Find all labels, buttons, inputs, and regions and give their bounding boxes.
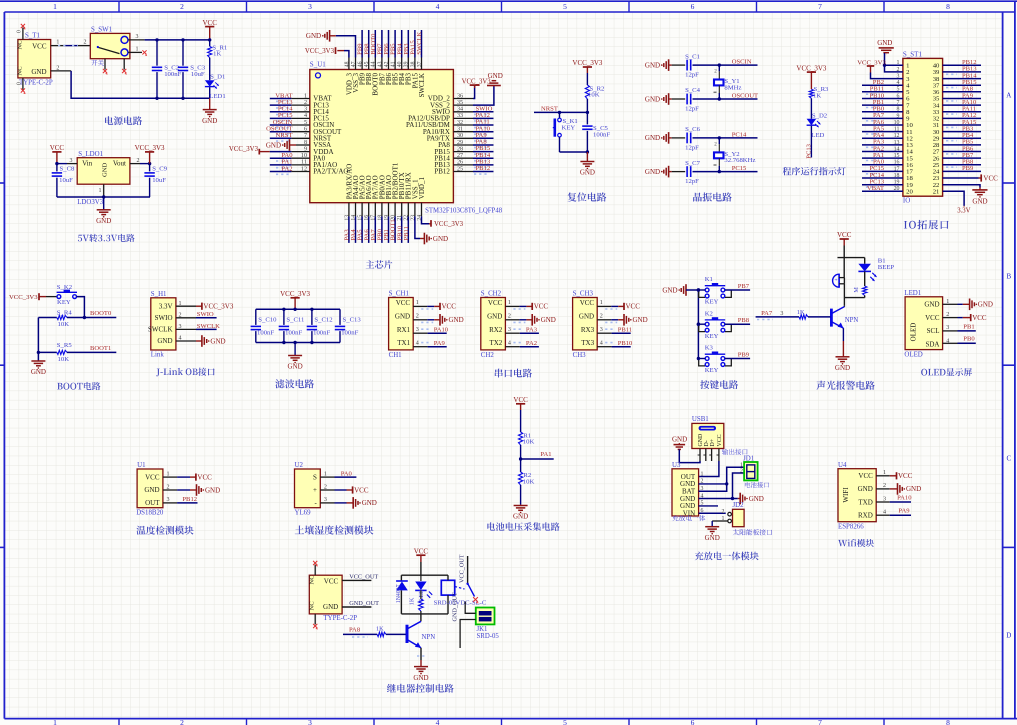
relay coil xyxy=(441,575,454,614)
svg-text:PA10: PA10 xyxy=(434,327,449,334)
svg-text:SWCLK: SWCLK xyxy=(418,73,426,98)
svg-text:RX3: RX3 xyxy=(581,326,595,334)
ground GND keys xyxy=(662,284,700,296)
svg-text:GND: GND xyxy=(157,337,172,345)
svg-text:4: 4 xyxy=(436,2,440,11)
wire U1 VSS_2 to GND xyxy=(473,86,494,106)
svg-text:VCC_3V3: VCC_3V3 xyxy=(305,48,335,55)
capacitor C5 xyxy=(582,112,610,153)
svg-text:SWCLK: SWCLK xyxy=(148,326,173,334)
svg-text:GND: GND xyxy=(749,495,764,503)
svg-text:TX1: TX1 xyxy=(397,339,410,347)
connector USB1 body xyxy=(692,416,724,448)
svg-text:JD2: JD2 xyxy=(733,502,745,509)
svg-text:VCC: VCC xyxy=(626,303,641,311)
svg-text:S_C12: S_C12 xyxy=(314,317,332,324)
connector T1 (TYPE-C-2P) xyxy=(17,33,53,87)
pushbutton K2 xyxy=(697,310,750,340)
svg-text:12pF: 12pF xyxy=(685,72,699,79)
svg-text:VCC: VCC xyxy=(354,486,369,494)
svg-text:VCC: VCC xyxy=(837,231,852,239)
svg-text:3.3V: 3.3V xyxy=(159,302,173,310)
svg-text:PB8: PB8 xyxy=(738,317,750,324)
resistor R5 BOOT1 xyxy=(38,342,116,363)
svg-text:VCC: VCC xyxy=(50,144,65,152)
svg-text:OUT: OUT xyxy=(145,499,160,507)
caption main chip xyxy=(366,260,393,269)
svg-text:U1: U1 xyxy=(137,462,146,469)
svg-text:2: 2 xyxy=(600,314,603,320)
svg-text:10K: 10K xyxy=(588,92,600,99)
svg-text:1K: 1K xyxy=(409,597,416,605)
svg-text:VBAT: VBAT xyxy=(867,185,884,192)
svg-text:KEY: KEY xyxy=(705,367,719,374)
header CH1 body xyxy=(389,290,414,359)
svg-text:1K: 1K xyxy=(376,625,384,632)
svg-text:2: 2 xyxy=(416,314,419,320)
caption serial circuit xyxy=(495,369,532,378)
svg-text:3: 3 xyxy=(308,718,312,725)
svg-text:VCC: VCC xyxy=(32,43,47,51)
ground GND top right of U1 xyxy=(487,72,503,86)
svg-text:GND: GND xyxy=(513,513,528,521)
wire boot pulldown rail xyxy=(37,318,40,362)
svg-text:VCC_3V3: VCC_3V3 xyxy=(135,144,165,152)
header CH2 body xyxy=(481,290,506,359)
svg-text:VCC: VCC xyxy=(925,314,940,322)
OLED pin1 GND xyxy=(943,299,993,311)
svg-text:12pF: 12pF xyxy=(685,144,699,151)
ground GND relay xyxy=(413,667,428,682)
relay part number xyxy=(434,599,487,606)
svg-text:VCC: VCC xyxy=(145,473,160,481)
svg-text:STM32F103C8T6_LQFP48: STM32F103C8T6_LQFP48 xyxy=(425,207,503,214)
svg-text:PA1: PA1 xyxy=(540,451,551,458)
svg-text:VCC: VCC xyxy=(324,577,339,585)
OLED pin4 SDA xyxy=(943,336,976,345)
svg-text:GND: GND xyxy=(978,301,993,309)
svg-text:GND: GND xyxy=(210,337,225,345)
svg-text:VCC: VCC xyxy=(442,303,457,311)
U2 pin2 + xyxy=(320,484,369,494)
svg-text:U4: U4 xyxy=(838,462,847,469)
svg-text:+: + xyxy=(313,486,317,494)
svg-text:3: 3 xyxy=(70,158,73,164)
power port VCC xyxy=(202,19,217,42)
svg-text:S_C4: S_C4 xyxy=(685,87,701,94)
svg-text:1K: 1K xyxy=(797,309,805,316)
svg-text:PC14: PC14 xyxy=(732,131,747,138)
svg-text:2: 2 xyxy=(740,468,743,474)
LED relay xyxy=(415,582,432,602)
svg-text:CH1: CH1 xyxy=(389,352,403,359)
power VCC_3V3 jlink xyxy=(196,303,234,311)
capacitor C7 row PC15 xyxy=(645,160,758,185)
svg-text:RX1: RX1 xyxy=(397,326,411,334)
net SWIO jlink xyxy=(196,311,217,318)
svg-text:S_CH1: S_CH1 xyxy=(389,290,410,297)
H1 pin wires xyxy=(176,301,196,342)
svg-text:3.3V: 3.3V xyxy=(957,207,970,214)
header CH3 body xyxy=(573,290,598,359)
svg-text:D+: D+ xyxy=(710,438,716,446)
svg-text:41: 41 xyxy=(391,61,397,67)
svg-text:38: 38 xyxy=(410,61,416,67)
svg-text:PA9: PA9 xyxy=(434,340,446,347)
power VCC_3V3 boot xyxy=(9,293,57,301)
mcu U1 STM32F103C8T6 body xyxy=(310,61,503,215)
U1 top pins xyxy=(344,30,423,70)
svg-text:U2: U2 xyxy=(295,462,304,469)
TYPE-C bottom pin no-connect xyxy=(313,614,318,629)
svg-text:GND: GND xyxy=(645,134,660,142)
buzzer top node xyxy=(838,258,865,278)
ground GND battery xyxy=(738,493,764,505)
svg-text:S_C6: S_C6 xyxy=(685,126,701,133)
capacitor C2 xyxy=(152,38,182,100)
U1 sensor pin3 OUT xyxy=(163,496,198,503)
svg-text:PB12: PB12 xyxy=(182,496,197,503)
svg-text:100nF: 100nF xyxy=(164,71,181,78)
svg-text:10K: 10K xyxy=(58,356,70,363)
svg-text:PA2: PA2 xyxy=(526,340,537,347)
CH1 pin4 TX xyxy=(413,340,447,347)
switch SW1 xyxy=(90,27,130,59)
power port VCC_3V3 ldo out xyxy=(135,144,165,164)
U4 pin3 TXD xyxy=(876,494,912,502)
svg-text:TYPE-C-2P: TYPE-C-2P xyxy=(323,615,357,622)
svg-text:0: 0 xyxy=(17,82,23,85)
svg-text:B: B xyxy=(1006,273,1011,281)
svg-text:6: 6 xyxy=(691,2,695,11)
svg-text:3: 3 xyxy=(508,327,511,333)
ground GND ldo xyxy=(96,197,111,225)
svg-text:5: 5 xyxy=(563,2,567,11)
CH1 pin2 GND xyxy=(413,314,463,326)
svg-text:PB7: PB7 xyxy=(738,283,750,290)
svg-text:PA8: PA8 xyxy=(349,627,361,634)
svg-text:40: 40 xyxy=(397,61,403,67)
svg-text:NC: NC xyxy=(309,601,316,611)
svg-text:VCC_3V3: VCC_3V3 xyxy=(572,59,602,67)
power VCC buzzer xyxy=(837,231,852,257)
svg-text:SWIO: SWIO xyxy=(155,314,173,322)
svg-text:VCC: VCC xyxy=(534,303,549,311)
power port VCC_3V3 indicator xyxy=(796,64,826,89)
svg-text:LED1: LED1 xyxy=(904,290,921,297)
svg-text:TX2: TX2 xyxy=(489,339,502,347)
svg-text:37: 37 xyxy=(417,61,423,67)
svg-text:GND: GND xyxy=(306,32,321,40)
svg-text:GND: GND xyxy=(413,674,428,682)
wire U3 GND4 to GND and JD1 pin2 xyxy=(699,473,745,500)
LED inside buzzer branch xyxy=(858,257,894,281)
OLED pin3 SCL xyxy=(943,323,976,331)
CH3 pin4 TX xyxy=(597,340,633,347)
caption wifi module xyxy=(838,539,874,547)
svg-text:VCC_3V3: VCC_3V3 xyxy=(280,290,310,298)
svg-text:VCC_3V3: VCC_3V3 xyxy=(796,64,826,72)
ground GND at U1 VSSA xyxy=(266,139,296,151)
svg-text:VCC: VCC xyxy=(858,472,873,480)
label battery interface xyxy=(745,482,769,488)
pushbutton K3 xyxy=(697,345,750,375)
svg-text:SRD-05: SRD-05 xyxy=(477,633,500,640)
svg-text:100nF: 100nF xyxy=(285,329,302,336)
caption IO expansion xyxy=(904,220,949,230)
svg-text:1: 1 xyxy=(56,40,59,46)
svg-text:45: 45 xyxy=(364,61,370,67)
svg-text:BOOT1: BOOT1 xyxy=(90,345,111,352)
svg-text:PC13: PC13 xyxy=(805,143,812,158)
svg-text:VCC_3V3: VCC_3V3 xyxy=(229,146,259,153)
svg-text:32.768KHz: 32.768KHz xyxy=(724,157,755,164)
svg-text:10K: 10K xyxy=(523,478,535,485)
svg-text:100nF: 100nF xyxy=(593,131,610,138)
svg-text:D: D xyxy=(1006,632,1011,640)
resistor R2 xyxy=(585,85,604,99)
svg-text:42: 42 xyxy=(384,61,390,67)
U1 right pins xyxy=(453,93,493,174)
OLED pin2 VCC xyxy=(943,312,987,322)
wire U3 GND5 xyxy=(699,505,718,507)
svg-text:GND: GND xyxy=(835,364,850,372)
CH1 pin3 RX xyxy=(413,327,449,334)
svg-text:YL69: YL69 xyxy=(295,510,312,517)
power VCC_3V3 at ST1 pin3 xyxy=(857,59,903,78)
svg-text:6: 6 xyxy=(691,718,695,725)
SW1 bottom pins no-connect xyxy=(103,59,127,74)
power VCC_3V3 top left xyxy=(305,47,336,55)
svg-text:VCC: VCC xyxy=(972,314,987,322)
svg-text:GND: GND xyxy=(449,316,464,324)
svg-text:1: 1 xyxy=(416,300,419,306)
svg-text:SDA: SDA xyxy=(925,340,939,348)
ground GND above ST1 xyxy=(877,39,894,53)
caption alarm circuit xyxy=(817,381,875,390)
capacitor C13 xyxy=(335,309,362,342)
svg-text:S_SW1: S_SW1 xyxy=(91,27,113,34)
svg-text:1K: 1K xyxy=(813,93,821,100)
wire T1 VCC to SW1 xyxy=(51,40,91,46)
svg-text:GND: GND xyxy=(924,301,939,309)
svg-text:47: 47 xyxy=(351,61,357,67)
svg-text:GND: GND xyxy=(579,312,594,320)
svg-text:GND: GND xyxy=(96,217,111,225)
svg-text:NRST: NRST xyxy=(541,106,558,113)
ground GND solar xyxy=(705,527,720,542)
svg-text:PB11: PB11 xyxy=(403,226,410,240)
SW1 pin 3 wire to VCC rail xyxy=(128,34,210,40)
svg-text:GND_OUT: GND_OUT xyxy=(452,592,459,621)
wire U3 VIN to JD2 xyxy=(699,512,726,514)
regulator LDO1 xyxy=(77,151,130,206)
wire NRST node xyxy=(534,99,589,114)
svg-text:S_C13: S_C13 xyxy=(343,317,362,324)
U3 pin wires xyxy=(701,471,704,514)
relay emitter to GND xyxy=(417,648,425,667)
svg-text:GND: GND xyxy=(705,534,720,542)
svg-text:3: 3 xyxy=(416,327,419,333)
svg-text:1: 1 xyxy=(600,300,603,306)
sensor U2 YL69 body xyxy=(295,462,321,517)
svg-text:VCC_OUT: VCC_OUT xyxy=(459,554,466,583)
ground GND jlink xyxy=(196,335,226,347)
ground GND filter xyxy=(288,343,303,371)
svg-text:GND: GND xyxy=(323,603,338,611)
svg-text:VCC: VCC xyxy=(414,547,429,555)
svg-text:VCC: VCC xyxy=(488,299,503,307)
wire T1 GND to bottom rail xyxy=(51,66,210,99)
svg-text:OLED: OLED xyxy=(904,351,922,358)
svg-text:PB9: PB9 xyxy=(738,352,750,359)
svg-text:VCC: VCC xyxy=(983,174,998,182)
svg-text:KEY: KEY xyxy=(705,299,719,306)
svg-text:GND: GND xyxy=(580,169,595,177)
capacitor C12 xyxy=(307,309,333,342)
svg-text:8MHz: 8MHz xyxy=(724,84,741,91)
svg-text:PA7: PA7 xyxy=(761,310,773,317)
svg-text:NC: NC xyxy=(17,40,24,50)
wire JK1 pin2 GND_OUT xyxy=(452,592,476,648)
capacitor C3 xyxy=(178,38,206,100)
capacitor C11 xyxy=(279,309,305,342)
label output interface xyxy=(722,449,748,455)
net label PC13 rotated xyxy=(805,143,812,158)
svg-text:5: 5 xyxy=(563,718,567,725)
U4 pin1 VCC xyxy=(876,470,913,480)
caption run indicator xyxy=(783,167,846,176)
svg-text:4: 4 xyxy=(436,718,440,725)
wire U1 VSS_1 to GND xyxy=(415,216,425,238)
caption BOOT circuit xyxy=(57,382,100,390)
caption OLED display xyxy=(921,368,972,376)
caption crystal circuit xyxy=(693,192,732,201)
svg-text:LDO3V3: LDO3V3 xyxy=(77,199,104,206)
connector JK1 relay out xyxy=(476,608,500,640)
svg-text:USB1: USB1 xyxy=(692,416,709,423)
svg-text:KEY: KEY xyxy=(562,124,576,131)
buzzer bottom node xyxy=(844,298,864,306)
buzzer B1 speaker symbol xyxy=(833,274,845,297)
svg-text:1: 1 xyxy=(508,300,511,306)
svg-text:PA2: PA2 xyxy=(281,165,292,172)
CH3 pin3 RX xyxy=(597,327,632,334)
svg-text:44: 44 xyxy=(371,61,377,67)
resistor R3 xyxy=(809,86,829,99)
caption reset circuit xyxy=(568,192,607,201)
svg-text:GND: GND xyxy=(541,316,556,324)
svg-text:VDD_1: VDD_1 xyxy=(418,177,426,200)
svg-text:Link: Link xyxy=(151,352,165,359)
svg-text:PC15: PC15 xyxy=(732,165,747,172)
svg-text:KEY: KEY xyxy=(57,299,71,306)
CH1 pin1 VCC xyxy=(413,300,456,311)
svg-text:CH3: CH3 xyxy=(573,352,587,359)
svg-text:K3: K3 xyxy=(705,345,714,352)
CH2 pin4 TX xyxy=(505,340,539,347)
sensor U1 DS18B20 body xyxy=(136,462,164,517)
ground GND top left of U1 xyxy=(306,30,330,42)
svg-text:8: 8 xyxy=(946,2,950,11)
resistor R1 xyxy=(208,40,228,58)
key rail xyxy=(697,290,700,359)
wire U3 GND2 junction xyxy=(699,482,729,485)
svg-text:PA10: PA10 xyxy=(897,494,912,501)
svg-text:GND: GND xyxy=(205,486,220,494)
svg-text:Vout: Vout xyxy=(113,160,126,168)
svg-text:10uF: 10uF xyxy=(191,71,205,78)
svg-text:12pF: 12pF xyxy=(685,106,699,113)
wire JK1 pin1 xyxy=(465,602,476,614)
power VCC_3V3 filter xyxy=(280,290,310,311)
power VCC at ST1 pin23 xyxy=(943,174,999,182)
TYPE-C top pin no-connect xyxy=(313,561,318,575)
svg-text:SCL: SCL xyxy=(927,327,940,335)
divider mid node PA1 xyxy=(519,445,554,472)
svg-text:NPN: NPN xyxy=(845,317,859,324)
connector TYPE-C power out body xyxy=(309,575,358,622)
relay switch xyxy=(455,554,479,603)
CH2 pin3 RX xyxy=(505,327,539,334)
capacitor C4 row OSCOUT xyxy=(645,87,758,112)
svg-text:PB1: PB1 xyxy=(963,323,974,330)
svg-text:PA2/TX/AO: PA2/TX/AO xyxy=(313,168,348,176)
connector JD1 battery xyxy=(740,456,758,481)
svg-text:JD1: JD1 xyxy=(743,456,755,463)
svg-text:GND: GND xyxy=(972,198,987,206)
ground GND usb xyxy=(672,435,687,449)
U1 sensor pin1 VCC xyxy=(163,472,212,482)
svg-text:GND: GND xyxy=(144,486,159,494)
svg-text:20: 20 xyxy=(906,189,913,196)
svg-text:VCC: VCC xyxy=(717,434,723,446)
svg-text:S_C10: S_C10 xyxy=(258,317,277,324)
svg-text:1: 1 xyxy=(701,471,704,477)
svg-text:VCC: VCC xyxy=(202,19,217,27)
wire ST1 pin22 to GND xyxy=(943,185,980,188)
resistor R4 BOOT0 xyxy=(38,309,116,328)
base resistor 1K relay xyxy=(343,625,406,637)
svg-text:1: 1 xyxy=(136,47,139,53)
svg-text:VCC: VCC xyxy=(898,472,913,480)
svg-text:NC: NC xyxy=(309,575,316,585)
connector JD2 solar xyxy=(722,502,745,527)
svg-text:S_C11: S_C11 xyxy=(286,317,304,324)
caption temperature module xyxy=(137,526,194,535)
SW1 pin 1 no-connect xyxy=(128,47,147,56)
svg-text:10uF: 10uF xyxy=(152,177,166,184)
svg-text:GND: GND xyxy=(202,117,217,125)
svg-text:1K: 1K xyxy=(213,51,221,58)
svg-text:100nF: 100nF xyxy=(341,329,358,336)
svg-text:+: + xyxy=(835,278,838,284)
caption soil moisture module xyxy=(295,525,374,534)
svg-text:GND: GND xyxy=(645,61,660,69)
svg-text:NC: NC xyxy=(17,66,24,76)
crystal Y1 xyxy=(714,65,742,99)
base resistor 1K buzzer xyxy=(756,309,831,320)
resistor 1K relay xyxy=(409,590,424,614)
display LED1 OLED body xyxy=(904,290,942,358)
CH2 pin2 GND xyxy=(505,314,555,326)
svg-text:OSCOUT: OSCOUT xyxy=(732,92,758,99)
ST1 left pins xyxy=(862,60,903,192)
caption relay control xyxy=(387,684,454,693)
capacitor C1 row OSCIN xyxy=(645,53,758,78)
header ST1 body xyxy=(903,51,943,205)
svg-text:A: A xyxy=(1006,92,1011,100)
